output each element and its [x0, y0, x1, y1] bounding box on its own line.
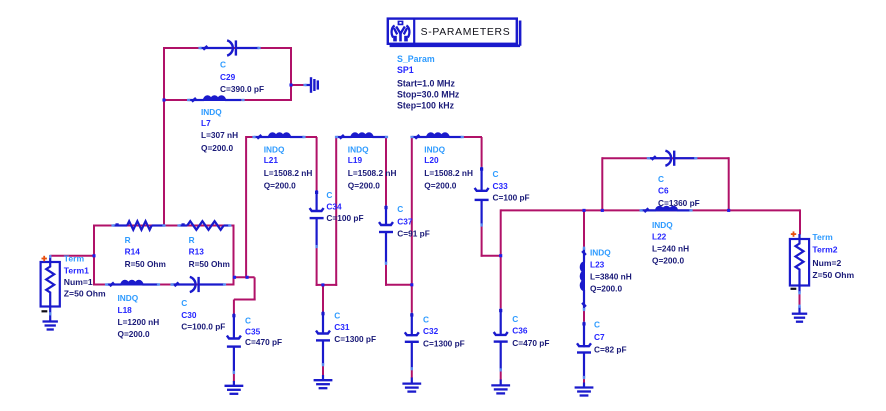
svg-text:C=100.0 pF: C=100.0 pF: [181, 322, 225, 332]
svg-text:C=390.0 pF: C=390.0 pF: [220, 84, 264, 94]
svg-text:R13: R13: [189, 247, 205, 257]
svg-text:INDQ: INDQ: [652, 220, 673, 230]
svg-text:S_Param: S_Param: [397, 54, 435, 64]
svg-text:R: R: [125, 235, 131, 245]
svg-text:L=240 nH: L=240 nH: [652, 244, 689, 254]
svg-text:INDQ: INDQ: [118, 293, 139, 303]
svg-text:C32: C32: [423, 326, 439, 336]
svg-text:C=100 pF: C=100 pF: [326, 213, 363, 223]
svg-text:R: R: [189, 235, 195, 245]
svg-text:C: C: [594, 320, 600, 330]
svg-text:L19: L19: [348, 155, 363, 165]
svg-text:R=50 Ohm: R=50 Ohm: [125, 259, 166, 269]
svg-text:Term: Term: [64, 254, 85, 264]
svg-text:Q=200.0: Q=200.0: [590, 284, 622, 294]
svg-text:L18: L18: [118, 305, 133, 315]
svg-text:S-PARAMETERS: S-PARAMETERS: [421, 27, 511, 38]
svg-text:L=1200 nH: L=1200 nH: [118, 317, 160, 327]
svg-text:Num=2: Num=2: [812, 258, 841, 268]
svg-text:C33: C33: [493, 181, 509, 191]
svg-text:Num=1: Num=1: [64, 277, 93, 287]
svg-text:Z=50 Ohm: Z=50 Ohm: [812, 270, 854, 280]
svg-text:C=470 pF: C=470 pF: [512, 338, 549, 348]
svg-text:C: C: [245, 316, 251, 326]
svg-text:Q=200.0: Q=200.0: [652, 256, 684, 266]
svg-text:C: C: [334, 311, 340, 321]
svg-text:INDQ: INDQ: [424, 145, 445, 155]
svg-text:SP1: SP1: [397, 65, 414, 75]
svg-text:Term1: Term1: [64, 265, 89, 275]
svg-text:Q=200.0: Q=200.0: [118, 329, 150, 339]
svg-text:INDQ: INDQ: [201, 107, 222, 117]
svg-text:Term2: Term2: [812, 245, 837, 255]
svg-text:C31: C31: [334, 322, 350, 332]
svg-text:INDQ: INDQ: [348, 145, 369, 155]
svg-text:L22: L22: [652, 232, 667, 242]
svg-text:C36: C36: [512, 326, 528, 336]
svg-text:C=1300 pF: C=1300 pF: [423, 339, 465, 349]
svg-text:L21: L21: [264, 155, 279, 165]
svg-text:Z=50 Ohm: Z=50 Ohm: [64, 289, 106, 299]
svg-text:C: C: [658, 174, 664, 184]
svg-text:C=91 pF: C=91 pF: [397, 229, 430, 239]
svg-text:L=1508.2 nH: L=1508.2 nH: [348, 168, 397, 178]
svg-text:Q=200.0: Q=200.0: [201, 143, 233, 153]
svg-text:C=1300 pF: C=1300 pF: [334, 334, 376, 344]
svg-text:C: C: [423, 315, 429, 325]
svg-text:C34: C34: [326, 202, 342, 212]
svg-text:Start=1.0 MHz: Start=1.0 MHz: [397, 79, 456, 89]
svg-text:C30: C30: [181, 310, 197, 320]
svg-text:C=1360 pF: C=1360 pF: [658, 198, 700, 208]
svg-text:C=470 pF: C=470 pF: [245, 337, 282, 347]
svg-text:L=1508.2 nH: L=1508.2 nH: [424, 168, 473, 178]
svg-text:C=100 pF: C=100 pF: [493, 193, 530, 203]
svg-text:R14: R14: [125, 247, 141, 257]
svg-text:Step=100 kHz: Step=100 kHz: [397, 101, 455, 111]
svg-text:Q=200.0: Q=200.0: [348, 180, 380, 190]
svg-text:L=307 nH: L=307 nH: [201, 130, 238, 140]
svg-text:C: C: [181, 298, 187, 308]
svg-text:C: C: [512, 314, 518, 324]
svg-text:C37: C37: [397, 217, 413, 227]
svg-text:L=3840 nH: L=3840 nH: [590, 272, 632, 282]
svg-text:C: C: [326, 190, 332, 200]
svg-text:C7: C7: [594, 332, 605, 342]
svg-text:C: C: [493, 169, 499, 179]
svg-text:L7: L7: [201, 118, 211, 128]
svg-text:C29: C29: [220, 72, 236, 82]
svg-text:INDQ: INDQ: [590, 248, 611, 258]
svg-text:Stop=30.0 MHz: Stop=30.0 MHz: [397, 90, 460, 100]
svg-text:L=1508.2 nH: L=1508.2 nH: [264, 168, 313, 178]
svg-text:C35: C35: [245, 326, 261, 336]
svg-text:C: C: [220, 60, 226, 70]
svg-text:C=82 pF: C=82 pF: [594, 345, 627, 355]
svg-text:Q=200.0: Q=200.0: [424, 180, 456, 190]
svg-text:C: C: [397, 204, 403, 214]
svg-text:R=50 Ohm: R=50 Ohm: [189, 259, 230, 269]
svg-text:L20: L20: [424, 155, 439, 165]
svg-text:C6: C6: [658, 186, 669, 196]
svg-text:Q=200.0: Q=200.0: [264, 180, 296, 190]
svg-text:Term: Term: [812, 232, 833, 242]
svg-text:INDQ: INDQ: [264, 145, 285, 155]
svg-text:L23: L23: [590, 260, 605, 270]
